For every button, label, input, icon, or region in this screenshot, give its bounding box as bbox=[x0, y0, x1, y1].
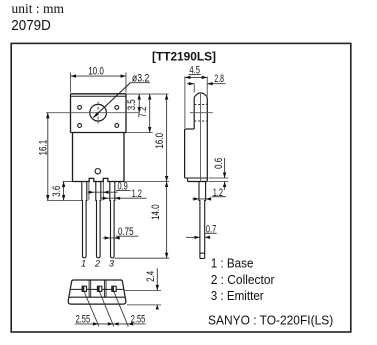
dim 0.9 line with arrows bbox=[88, 191, 118, 193]
lower small hole bbox=[95, 169, 100, 174]
svg-text:0.7: 0.7 bbox=[206, 224, 216, 236]
lead step extension left bbox=[47, 200, 82, 202]
dim 2.4 extension lines bbox=[124, 290, 162, 305]
dim text 4.5 underline bbox=[189, 74, 201, 76]
tab right edge bbox=[125, 94, 127, 133]
dim 4.5 extension lines bbox=[185, 77, 207, 129]
hole horizontal centerline / extension for 16.1 and 3.5 bbox=[46, 112, 140, 114]
lead 1 outline bbox=[82, 182, 87, 258]
dim text 1.2 (side) underline bbox=[212, 196, 226, 198]
dim 2.55 line bbox=[75, 323, 146, 325]
dim 3.6 line with arrows bbox=[63, 182, 65, 201]
dim 7.2 line with arrows bbox=[149, 94, 151, 133]
side bottom lip line bbox=[185, 177, 208, 179]
side hole centerline bbox=[190, 112, 213, 114]
dia 3.2 leader line bbox=[94, 83, 131, 118]
dim 0.7 line with arrows bbox=[186, 236, 210, 238]
svg-text:unit : mm: unit : mm bbox=[12, 1, 65, 16]
svg-text:0.75: 0.75 bbox=[118, 226, 134, 238]
dim 3.5 line with arrows bbox=[138, 94, 140, 113]
top extension line right bbox=[126, 93, 169, 95]
dim 14.0 line with arrows bbox=[166, 182, 168, 259]
lead 2 outline bbox=[96, 182, 101, 258]
side top arc bbox=[194, 93, 207, 98]
small hole top-left bbox=[78, 106, 82, 110]
body right edge bbox=[123, 133, 125, 182]
dim 0.6 extension lines bbox=[209, 178, 229, 182]
svg-text:0.6: 0.6 bbox=[213, 158, 225, 169]
dim text 0.75 underline bbox=[116, 235, 138, 237]
side hidden hole edge top bbox=[194, 104, 207, 106]
side tab rear edge bbox=[193, 97, 195, 129]
bottom view divider lines left pair bbox=[89, 280, 91, 297]
svg-text:2: 2 bbox=[94, 258, 100, 268]
dim 0.6 line with arrows bbox=[224, 158, 226, 190]
dim 0.75 line with arrows bbox=[103, 237, 120, 239]
dim 2.8 extension line bbox=[193, 84, 195, 93]
dim 10.0 extension lines bbox=[71, 73, 127, 93]
tab top edge line 1 bbox=[71, 93, 127, 95]
side body step bbox=[185, 128, 195, 130]
svg-text:[TT2190LS]: [TT2190LS] bbox=[152, 49, 216, 63]
dim 2.8 line with arrows bbox=[187, 83, 226, 85]
svg-text:16.1: 16.1 bbox=[38, 140, 50, 156]
dim 2.4 line with arrows bbox=[156, 268, 158, 309]
tab bottom edge bbox=[71, 132, 127, 134]
svg-text:1 : Base: 1 : Base bbox=[211, 256, 254, 270]
svg-text:2.55: 2.55 bbox=[131, 313, 146, 325]
side lip left edge bbox=[187, 178, 189, 182]
small hole bottom-left bbox=[78, 124, 82, 128]
svg-text:0.9: 0.9 bbox=[118, 180, 128, 192]
extension stub below bump 1 bbox=[88, 182, 90, 201]
dia 3.2 leader arrowhead bbox=[93, 112, 99, 118]
bottom view inner line bbox=[69, 296, 125, 298]
small hole top-right bbox=[115, 106, 119, 110]
pitch leader line from pin 1 bbox=[84, 292, 99, 327]
side body rear edge bbox=[184, 129, 186, 178]
dim 1.2 line with arrows bbox=[101, 197, 147, 199]
tab top edge line 2 bbox=[71, 95, 127, 97]
dim 16.0 line with arrows bbox=[166, 94, 168, 182]
side center parting line bbox=[200, 94, 202, 182]
dim text 0.7 underline bbox=[205, 232, 217, 234]
lead 3 outline bbox=[110, 182, 115, 258]
body bottom extension right bbox=[124, 181, 169, 183]
side lead outline bbox=[199, 182, 206, 259]
pitch leader line from pin 3 bbox=[114, 292, 128, 327]
dim 16.1 line with arrows bbox=[47, 113, 49, 201]
dim text 0.9 underline bbox=[116, 189, 131, 191]
bottom view divider lines right pair bbox=[104, 280, 106, 297]
svg-text:3: 3 bbox=[109, 258, 114, 268]
bottom view mid step line bbox=[71, 288, 124, 290]
bottom view pin 1 bbox=[82, 286, 86, 291]
svg-text:3.5: 3.5 bbox=[126, 99, 138, 110]
body bottom extension left bbox=[63, 181, 73, 183]
side hidden hole edge bottom bbox=[194, 120, 207, 122]
svg-text:4.5: 4.5 bbox=[189, 65, 200, 77]
svg-text:1.2: 1.2 bbox=[132, 188, 142, 200]
svg-text:3.6: 3.6 bbox=[51, 186, 63, 197]
dim 1.2 (side) line with arrows bbox=[192, 198, 211, 200]
svg-text:1.2: 1.2 bbox=[213, 187, 223, 199]
side front edge bbox=[206, 97, 208, 181]
svg-text:3 : Emitter: 3 : Emitter bbox=[211, 289, 264, 303]
dim 2.55 arrowheads bbox=[93, 322, 133, 325]
svg-text:2079D: 2079D bbox=[11, 17, 51, 34]
svg-text:1: 1 bbox=[81, 258, 86, 268]
dim 4.5 line with arrows bbox=[185, 76, 207, 78]
body left edge bbox=[72, 133, 74, 182]
svg-text:2.55: 2.55 bbox=[76, 313, 91, 325]
tab bottom extension right bbox=[126, 132, 153, 134]
hole vertical centerline bbox=[97, 102, 99, 124]
svg-text:2.4: 2.4 bbox=[145, 271, 157, 282]
svg-text:2 : Collector: 2 : Collector bbox=[211, 273, 275, 287]
bottom view outline bbox=[68, 280, 126, 304]
svg-text:10.0: 10.0 bbox=[88, 66, 104, 78]
body bottom edge with two bumps bbox=[73, 178, 125, 181]
lead tip extension right bbox=[115, 257, 170, 259]
dim 10.0 line with arrows bbox=[71, 75, 127, 77]
svg-text:SANYO : TO-220FI(LS): SANYO : TO-220FI(LS) bbox=[208, 314, 333, 328]
tab left edge bbox=[70, 94, 72, 133]
bottom view pin 3 bbox=[112, 286, 116, 291]
extension stub below bump 2 bbox=[102, 182, 104, 201]
side bottom edge bbox=[188, 181, 208, 183]
small hole bottom-right bbox=[115, 124, 119, 128]
svg-text:14.0: 14.0 bbox=[150, 204, 162, 220]
svg-text:7.2: 7.2 bbox=[137, 106, 149, 117]
svg-text:16.0: 16.0 bbox=[154, 133, 166, 149]
bottom view pin 2 bbox=[97, 286, 101, 291]
pitch leader line from pin 2 bbox=[100, 292, 114, 327]
border frame bbox=[11, 43, 351, 332]
mounting hole (O3.2) bbox=[90, 104, 107, 121]
svg-text:2.8: 2.8 bbox=[214, 73, 224, 85]
